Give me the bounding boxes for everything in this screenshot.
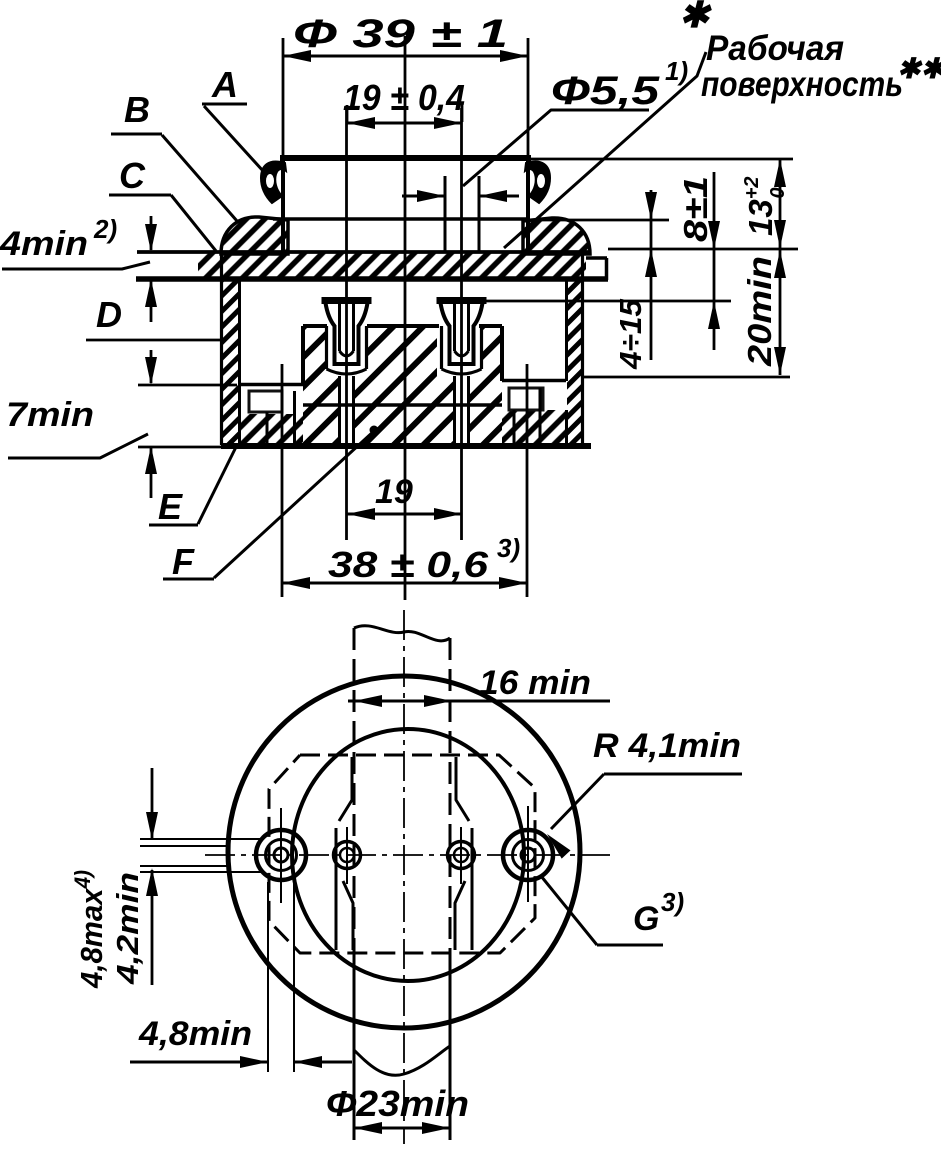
svg-text:7min: 7min bbox=[6, 396, 94, 434]
svg-text:C: C bbox=[119, 155, 146, 196]
svg-text:G: G bbox=[633, 900, 659, 938]
label D bbox=[86, 294, 222, 340]
right rim tab bbox=[586, 258, 607, 280]
svg-text:✱✱: ✱✱ bbox=[897, 53, 941, 84]
dim 16min bbox=[348, 664, 610, 707]
slot break top bbox=[354, 626, 450, 641]
svg-text:4min: 4min bbox=[0, 225, 88, 263]
svg-text:4,8min: 4,8min bbox=[138, 1015, 252, 1053]
contact pin left bbox=[322, 297, 372, 443]
label R4.1 bbox=[547, 727, 742, 859]
pin centerline left bbox=[345, 108, 348, 540]
inner circle bbox=[292, 729, 524, 981]
hole mid-left bbox=[334, 827, 361, 884]
working surface label bbox=[504, 29, 941, 248]
svg-text:4÷15: 4÷15 bbox=[613, 298, 648, 370]
hole mid-right bbox=[448, 827, 475, 884]
right recess bbox=[502, 381, 566, 444]
svg-text:19 ± 0,4: 19 ± 0,4 bbox=[343, 77, 465, 118]
dim 4-15 bbox=[613, 190, 657, 370]
section centerline bbox=[404, 36, 407, 600]
svg-text:Ф 39 ± 1: Ф 39 ± 1 bbox=[293, 12, 508, 56]
dim 4.8min bbox=[130, 880, 352, 1072]
section bottom edge bbox=[221, 443, 591, 449]
pin recess cutouts bbox=[242, 322, 565, 443]
dim F23min bbox=[326, 1083, 469, 1134]
svg-text:8±1: 8±1 bbox=[677, 176, 714, 242]
svg-text:B: B bbox=[124, 89, 150, 130]
label C bbox=[109, 155, 216, 251]
svg-text:38 ± 0,6: 38 ± 0,6 bbox=[328, 544, 489, 585]
band outline bbox=[136, 252, 608, 279]
slot profile right bbox=[455, 757, 472, 950]
insulator block outline bbox=[303, 326, 502, 405]
slot break bottom bbox=[354, 1046, 450, 1075]
svg-text:E: E bbox=[158, 486, 183, 527]
svg-text:4,2min: 4,2min bbox=[110, 872, 145, 985]
left recess bbox=[240, 385, 303, 444]
dim 13 and 20min bbox=[741, 159, 789, 375]
svg-text:1): 1) bbox=[665, 56, 688, 86]
left shoulder bump bbox=[221, 217, 288, 254]
ext lines right bbox=[486, 159, 798, 377]
dim 4.8max 4.2min bbox=[70, 768, 262, 989]
dim 19 bottom bbox=[347, 473, 462, 520]
svg-text:Ф5,5: Ф5,5 bbox=[551, 69, 660, 113]
outer circle bbox=[228, 676, 580, 1028]
slot dashed right bbox=[449, 638, 452, 1140]
svg-text:Ф23min: Ф23min bbox=[326, 1083, 469, 1124]
label 4min bbox=[0, 214, 157, 322]
svg-text:A: A bbox=[211, 64, 238, 105]
svg-text:19: 19 bbox=[375, 473, 413, 511]
dim F39 bbox=[283, 12, 528, 155]
insulator block hatch bbox=[241, 326, 566, 443]
svg-text:2): 2) bbox=[93, 214, 117, 244]
right clip bbox=[525, 161, 550, 203]
label B bbox=[111, 89, 237, 221]
dim F5.5 bbox=[402, 56, 688, 251]
label A bbox=[202, 64, 264, 172]
label 7min bbox=[6, 350, 237, 498]
label G bbox=[541, 876, 684, 945]
right shoulder bump bbox=[523, 218, 590, 254]
cap shell band hatch bbox=[198, 253, 586, 278]
star marker bbox=[679, 0, 712, 35]
dim 8+-1 bbox=[677, 172, 720, 350]
slot profile left bbox=[336, 757, 353, 950]
hole outer-right bbox=[503, 806, 553, 902]
svg-text:3): 3) bbox=[661, 887, 684, 917]
lamp cylinder bbox=[273, 158, 531, 253]
right skirt wall bbox=[567, 254, 583, 446]
left skirt wall bbox=[222, 253, 240, 445]
svg-text:3): 3) bbox=[497, 533, 520, 563]
svg-text:R 4,1min: R 4,1min bbox=[593, 727, 741, 765]
horizontal centerline bbox=[205, 854, 610, 856]
svg-text:Рабочая: Рабочая bbox=[706, 29, 844, 68]
svg-text:D: D bbox=[96, 294, 122, 335]
svg-text:20min: 20min bbox=[741, 256, 778, 367]
slot dashed left bbox=[353, 628, 356, 1140]
svg-text:поверхность: поверхность bbox=[701, 65, 903, 104]
contact pin right bbox=[437, 297, 487, 443]
hole outer-left bbox=[256, 808, 306, 903]
svg-text:16 min: 16 min bbox=[479, 664, 591, 702]
left clip A bbox=[261, 161, 286, 203]
label F bbox=[163, 426, 379, 583]
dim 19 top bbox=[343, 77, 465, 129]
dim 38 bbox=[282, 364, 527, 597]
svg-text:F: F bbox=[172, 541, 195, 582]
vertical centerline bbox=[403, 610, 405, 1144]
label E bbox=[149, 447, 236, 527]
pin centerline right bbox=[460, 108, 463, 540]
dashed contour octagon bbox=[269, 755, 535, 953]
